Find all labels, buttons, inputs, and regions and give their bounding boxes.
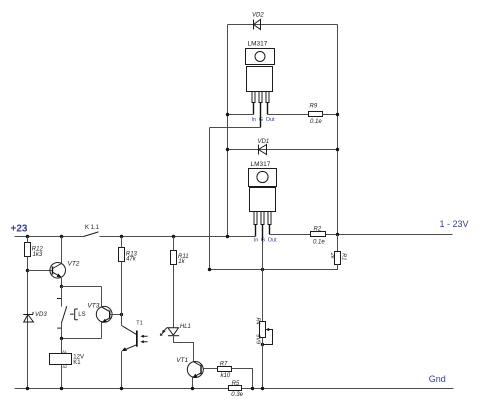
wire Out rail bottom LM317 to R2 (270, 234, 311, 236)
junction (60, 285, 63, 288)
svg-text:VD3: VD3 (35, 312, 47, 318)
transistor VT2 (50, 261, 80, 279)
switch LS (57, 287, 86, 339)
wire VT2 base (28, 270, 53, 272)
resistor R12 (25, 243, 44, 259)
svg-text:K1: K1 (73, 360, 81, 366)
wire VT1 base to R7 (203, 368, 217, 370)
wire relay to ground (61, 365, 63, 389)
junction (60, 387, 63, 390)
pin G top LM317 (260, 103, 262, 128)
wire VT3 emitter row to LS column (62, 338, 102, 340)
svg-text:In: In (254, 238, 259, 244)
svg-text:A1: A1 (62, 350, 67, 354)
svg-text:A2: A2 (63, 365, 68, 369)
resistor R7 (218, 361, 232, 379)
resistor R2 (311, 226, 326, 245)
svg-text:R9: R9 (310, 104, 318, 110)
junction (120, 387, 123, 390)
wire R1 bottom to adjust row (210, 265, 338, 270)
junction (208, 268, 211, 271)
svg-text:R7: R7 (220, 361, 228, 367)
wire R11 column top (173, 237, 175, 251)
svg-text:G: G (261, 238, 265, 244)
wire R2 to output terminal 1-23V (326, 234, 453, 236)
pin In top LM317 (253, 103, 255, 115)
junction (26, 269, 29, 272)
wire R7 to ground right of R5 (232, 369, 253, 389)
pin Out bottom LM317 (269, 225, 271, 235)
junction (120, 235, 123, 238)
junction (261, 343, 264, 346)
svg-text:47k: 47k (126, 256, 137, 262)
wire R12 bottom to VD3 to ground (27, 257, 29, 389)
junction (251, 387, 254, 390)
wire R12 column top (27, 237, 29, 243)
resistor R1 vertical (329, 252, 347, 265)
potentiometer R4 (255, 318, 273, 345)
junction (26, 387, 29, 390)
junction (226, 148, 229, 151)
junction (172, 235, 175, 238)
wire +23 rail left part (15, 236, 84, 238)
svg-text:LS: LS (78, 312, 85, 318)
svg-text:T1: T1 (136, 320, 142, 326)
wire VT3 collector up and left (101, 287, 103, 308)
svg-text:1k3: 1k3 (33, 252, 43, 258)
wire LS to relay (61, 339, 63, 354)
wire VT3 emitter down (101, 323, 103, 339)
svg-text:LM317: LM317 (248, 40, 268, 47)
svg-text:1 - 23V: 1 - 23V (440, 219, 469, 229)
svg-text:0.3e: 0.3e (231, 392, 243, 398)
wire ground rail left part (15, 388, 229, 390)
wire right column to R1 (337, 235, 339, 252)
op-amp U1 regulator LM317 top package (246, 40, 276, 127)
wire potentiometer bottom to ground (262, 338, 264, 389)
LED HL1 (160, 324, 191, 336)
svg-text:Out: Out (266, 117, 275, 123)
wire Out rail top LM317 to R9 (268, 114, 309, 116)
wire right column top (337, 25, 339, 235)
wire R13 bottom to T1 collector (121, 262, 123, 326)
wire In rail top LM317 (228, 114, 254, 116)
junction (60, 235, 63, 238)
svg-text:LM317: LM317 (251, 161, 271, 168)
svg-text:R4: R4 (255, 318, 261, 325)
wire ground rail right part (242, 388, 454, 390)
svg-text:R5: R5 (232, 381, 240, 387)
svg-text:R1: R1 (341, 253, 347, 260)
transistor VT1 (176, 357, 203, 378)
junction (261, 268, 264, 271)
diode VD2 (252, 13, 264, 30)
wire VT3 base to node (110, 314, 122, 316)
wire VD1 row (228, 149, 338, 151)
svg-text:HL1: HL1 (180, 324, 191, 330)
svg-text:VD1: VD1 (258, 139, 270, 145)
svg-text:Out: Out (268, 238, 277, 244)
svg-text:0.1e: 0.1e (310, 119, 322, 125)
wire left input column (227, 25, 229, 237)
relay coil K1 (50, 350, 84, 369)
wire adjust of top LM317 going left (210, 127, 261, 129)
wire VT2 emitter down (61, 277, 63, 287)
svg-text:VT3: VT3 (87, 303, 99, 310)
wire VT2 collector to +23 rail (61, 237, 63, 264)
pin G bottom LM317 (262, 225, 264, 241)
junction (26, 235, 29, 238)
junction (336, 148, 339, 151)
svg-text:K 1.1: K 1.1 (85, 225, 100, 231)
junction (120, 313, 123, 316)
svg-text:1k: 1k (178, 259, 185, 265)
resistor R11 (171, 251, 189, 266)
op-amp U2 regulator LM317 bottom package (249, 161, 278, 244)
svg-text:G: G (259, 117, 263, 123)
junction (226, 235, 229, 238)
wire T1 emitter to ground (121, 351, 123, 388)
wire R9 to right column (323, 114, 338, 116)
svg-text:VT2: VT2 (68, 261, 80, 268)
svg-text:Gnd: Gnd (429, 374, 446, 384)
junction (336, 113, 339, 116)
svg-text:6V9: 6V9 (255, 334, 261, 344)
svg-text:k10: k10 (221, 373, 231, 379)
svg-text:2k: 2k (329, 252, 335, 259)
relay contact K1.1 (84, 225, 100, 236)
wire VT2 emitter row to VT3 collector (62, 286, 102, 288)
junction (336, 233, 339, 236)
pin In bottom LM317 (255, 225, 257, 237)
resistor R9 (309, 104, 323, 125)
svg-text:VT1: VT1 (176, 357, 188, 364)
diode VD1 (258, 139, 270, 154)
optocoupler phototransistor T1 (122, 320, 148, 351)
wire R13 column top (121, 237, 123, 248)
wire VT1 emitter to ground (192, 377, 194, 388)
wire R11 bottom to LED (173, 265, 175, 328)
resistor R5 (229, 381, 244, 398)
wire top rail from VD2 anode to right column (228, 24, 338, 26)
wire adjust column of bottom LM317 down to potentiometer (262, 241, 264, 322)
junction (191, 387, 194, 390)
diode VD3 zener (23, 312, 47, 322)
pin Out top LM317 (267, 103, 269, 115)
wire +23 rail right part to In pin of bottom LM317 (100, 236, 256, 238)
resistor R13 (119, 248, 138, 263)
wire adjust column x209 (209, 128, 211, 270)
svg-text:+23: +23 (11, 223, 28, 234)
svg-text:0.1e: 0.1e (313, 239, 325, 245)
wire LED to VT1 collector (174, 335, 194, 362)
transistor VT3 (87, 303, 112, 323)
junction (60, 337, 63, 340)
svg-text:R2: R2 (314, 226, 322, 232)
svg-text:In: In (252, 117, 257, 123)
junction (261, 387, 264, 390)
junction (226, 113, 229, 116)
svg-text:VD2: VD2 (252, 13, 264, 19)
